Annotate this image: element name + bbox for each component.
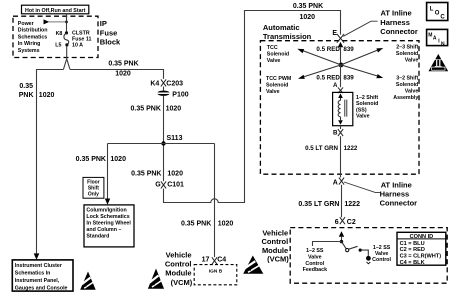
solenoid pin A xyxy=(333,82,343,93)
arrow to 3-2 shift solenoid valve assembly xyxy=(341,65,383,78)
wire label 0.35 PNK 1020 xyxy=(108,60,138,77)
svg-text:Control: Control xyxy=(372,257,391,263)
svg-text:(VCM): (VCM) xyxy=(267,254,289,263)
svg-text:In Wiring: In Wiring xyxy=(18,41,41,47)
svg-text:839: 839 xyxy=(343,46,354,53)
svg-text:Module: Module xyxy=(165,269,191,278)
svg-text:Power: Power xyxy=(18,21,34,27)
floor shift note box xyxy=(83,177,104,198)
grommet P100 xyxy=(157,91,188,99)
svg-text:Solenoid: Solenoid xyxy=(356,101,378,107)
power distribution dashed box xyxy=(13,16,98,57)
svg-text:Solenoid: Solenoid xyxy=(267,51,289,57)
svg-text:839: 839 xyxy=(343,75,354,82)
arrow into instrument cluster box xyxy=(34,253,40,259)
svg-text:1020: 1020 xyxy=(39,92,55,99)
splice S113 xyxy=(161,135,182,146)
switch S1 1-2 SS valve control xyxy=(342,242,371,264)
solenoid U1 1-2 shift solenoid box xyxy=(333,92,353,125)
svg-text:Gauges and Console: Gauges and Console xyxy=(15,285,68,291)
wire label 0.5 RED 839 (lower) xyxy=(316,75,354,82)
svg-text:0.35 PNK: 0.35 PNK xyxy=(108,60,138,67)
ESD triangle near column box xyxy=(148,269,164,289)
automatic transmission dashed box xyxy=(260,41,419,175)
svg-text:S113: S113 xyxy=(167,135,183,142)
svg-text:0.5 RED: 0.5 RED xyxy=(316,46,340,53)
label: TCC PWM Solenoid Valve xyxy=(266,76,292,95)
wire label 0.35 PNK 1020 xyxy=(131,105,182,112)
svg-text:IGN B: IGN B xyxy=(209,268,223,274)
svg-text:1020: 1020 xyxy=(115,70,131,77)
ESD triangle near VCM xyxy=(243,256,263,274)
svg-text:Solenoid: Solenoid xyxy=(266,83,288,89)
fuse value label xyxy=(72,31,91,49)
svg-text:In Steering Wheel: In Steering Wheel xyxy=(86,221,131,227)
svg-text:Schematics In: Schematics In xyxy=(15,270,51,276)
svg-text:Automatic: Automatic xyxy=(263,23,300,32)
wire label 0.35 PNK 1020 (top) xyxy=(293,3,323,21)
svg-text:IP: IP xyxy=(100,19,107,28)
svg-text:CLSTR: CLSTR xyxy=(72,31,90,37)
label: AT Inline Harness Connector (bottom) xyxy=(380,181,418,208)
svg-text:Instrument Panel,: Instrument Panel, xyxy=(15,278,60,284)
arrow to TCC PWM solenoid valve xyxy=(298,65,341,79)
svg-text:A: A xyxy=(333,82,338,89)
junction node in transmission xyxy=(339,63,344,68)
svg-text:0.5 RED: 0.5 RED xyxy=(316,75,340,82)
note: Power Distribution Schematics In Wiring Systems xyxy=(18,21,48,54)
svg-text:Transmission: Transmission xyxy=(263,32,312,41)
svg-text:K4: K4 xyxy=(150,81,159,88)
label: Vehicle Control Module (VCM) right xyxy=(262,229,290,264)
svg-text:C101: C101 xyxy=(167,182,184,189)
svg-text:N: N xyxy=(441,41,445,47)
arrow into transmission at E xyxy=(338,42,343,47)
power feed arrow xyxy=(44,19,68,24)
svg-text:1–2 SS: 1–2 SS xyxy=(373,245,391,251)
label: Vehicle Control Module (VCM) left xyxy=(165,251,193,287)
wire B down to connector A xyxy=(340,136,342,177)
svg-text:Solenoid: Solenoid xyxy=(396,82,418,88)
label: 1-2 SS Valve Control xyxy=(372,245,391,263)
label: 2-3 Shift Solenoid Valve xyxy=(396,44,419,63)
svg-text:L: L xyxy=(430,6,434,12)
svg-text:A: A xyxy=(333,180,338,187)
svg-text:1020: 1020 xyxy=(110,156,126,163)
svg-text:C203: C203 xyxy=(166,81,183,88)
svg-text:1020: 1020 xyxy=(167,170,183,177)
svg-text:0.35 PNK: 0.35 PNK xyxy=(131,170,161,177)
svg-text:Systems: Systems xyxy=(18,48,40,54)
wire to feedback stub xyxy=(313,242,342,247)
svg-text:AT Inline: AT Inline xyxy=(381,181,412,190)
label: Automatic Transmission xyxy=(263,23,312,41)
svg-text:Standard: Standard xyxy=(86,234,109,240)
wire S113 horizontal xyxy=(108,143,215,145)
wire into VCM switch xyxy=(341,237,343,242)
connector C203 pin K4 xyxy=(150,79,183,90)
label: IP Fuse Block xyxy=(100,19,121,46)
svg-text:17: 17 xyxy=(202,257,210,264)
svg-text:Valve: Valve xyxy=(266,89,280,95)
wire right branch along top xyxy=(70,70,164,79)
wire label 0.35 PNK 1020 xyxy=(181,221,233,228)
arrow into column box xyxy=(105,199,110,205)
svg-text:PNK: PNK xyxy=(19,92,34,99)
svg-text:0.35 PNK: 0.35 PNK xyxy=(131,105,161,112)
svg-text:Schematics: Schematics xyxy=(18,34,47,40)
instrument cluster note box xyxy=(12,260,73,292)
label: 1-2 Shift Solenoid (SS) Valve xyxy=(356,95,378,120)
wire label 0.5 RED 839 (upper) xyxy=(316,46,354,53)
svg-text:Harness: Harness xyxy=(380,190,410,199)
svg-text:3–2 Shift: 3–2 Shift xyxy=(396,76,418,82)
wire left branch to instrument cluster xyxy=(37,70,64,254)
svg-text:TCC: TCC xyxy=(267,45,278,51)
LOC logo box xyxy=(427,3,448,21)
connector C4 pin 17 xyxy=(202,257,227,265)
svg-text:Valve: Valve xyxy=(356,114,370,120)
svg-text:G: G xyxy=(155,182,161,189)
connector A (AT inline harness, bottom) xyxy=(333,178,344,187)
svg-text:(SS): (SS) xyxy=(356,107,367,113)
svg-text:(VCM): (VCM) xyxy=(171,278,193,287)
coil of 1-2 shift solenoid xyxy=(338,98,347,120)
svg-text:1–2 SS: 1–2 SS xyxy=(306,248,324,254)
svg-text:P100: P100 xyxy=(172,92,188,99)
svg-text:K8: K8 xyxy=(56,31,63,37)
column/ignition note box xyxy=(84,205,134,247)
arrow up at solenoid top xyxy=(338,93,343,98)
connector C2 pin 6 xyxy=(335,217,356,226)
svg-text:0.35 PNK: 0.35 PNK xyxy=(181,221,211,228)
svg-text:Valve: Valve xyxy=(405,89,419,95)
svg-text:0.5 LT GRN: 0.5 LT GRN xyxy=(305,145,338,152)
solenoid pin B xyxy=(333,126,343,137)
wire from C101 down then right up to transmission xyxy=(164,11,341,203)
svg-text:O: O xyxy=(435,10,440,16)
svg-text:Lock Schematics: Lock Schematics xyxy=(86,214,129,220)
arrow to 2-3 shift solenoid valve xyxy=(341,48,383,65)
callout line to AT inline harness connector (top) xyxy=(343,21,377,36)
svg-text:Solenoid: Solenoid xyxy=(396,51,418,57)
svg-text:A: A xyxy=(433,36,437,42)
svg-text:C4: C4 xyxy=(217,257,226,264)
svg-text:6: 6 xyxy=(335,219,339,226)
svg-text:Only: Only xyxy=(88,191,99,197)
svg-text:Control: Control xyxy=(165,260,192,269)
svg-text:and Column –: and Column – xyxy=(86,227,121,233)
svg-text:0.35 LT GRN: 0.35 LT GRN xyxy=(298,201,339,208)
VCM dashed box xyxy=(290,228,447,284)
svg-text:Connector: Connector xyxy=(380,198,418,207)
VCM IGN B dashed box xyxy=(194,265,237,285)
label: 3-2 Shift Solenoid Valve Assembly xyxy=(393,76,418,102)
MAIN logo box xyxy=(427,29,448,47)
svg-text:B: B xyxy=(333,130,338,137)
svg-text:Distribution: Distribution xyxy=(18,28,48,34)
junction node in VCM xyxy=(340,240,343,243)
wire junction down to pin A xyxy=(340,65,342,87)
DDO II triangle logo xyxy=(429,54,449,71)
svg-text:Connector: Connector xyxy=(380,27,418,36)
CONN ID table xyxy=(397,232,446,266)
fuse CLSTR Fuse 11 10 A xyxy=(64,31,69,46)
svg-text:M: M xyxy=(428,32,432,38)
svg-text:Valve: Valve xyxy=(405,57,419,63)
wire down to S113 xyxy=(163,96,165,181)
wire label 0.5 LT GRN 1222 xyxy=(305,145,358,152)
svg-text:C1 = BLU: C1 = BLU xyxy=(400,241,425,247)
svg-text:1020: 1020 xyxy=(166,105,182,112)
svg-text:AT Inline: AT Inline xyxy=(381,9,412,18)
wire branch to column box xyxy=(107,144,109,199)
svg-text:E: E xyxy=(332,30,337,37)
svg-text:1–2 Shift: 1–2 Shift xyxy=(356,95,378,101)
arrow down at solenoid bottom xyxy=(338,120,343,125)
connector E (AT inline harness) xyxy=(332,30,344,43)
arrow into VCM at pin 6 xyxy=(339,231,344,237)
svg-text:Valve: Valve xyxy=(375,251,389,257)
hot box label: Hot in Off,Run and Start xyxy=(22,5,89,14)
svg-text:L5: L5 xyxy=(55,43,61,49)
label: TCC Solenoid Valve xyxy=(267,45,289,64)
svg-text:2–3 Shift: 2–3 Shift xyxy=(396,44,418,50)
svg-text:Fuse: Fuse xyxy=(100,28,118,37)
svg-text:1020: 1020 xyxy=(218,221,234,228)
svg-text:Valve: Valve xyxy=(267,58,281,64)
svg-text:Control: Control xyxy=(305,261,324,267)
svg-text:Valve: Valve xyxy=(308,255,322,261)
wire label 0.35 PNK 1020 xyxy=(76,156,126,163)
svg-text:0.35: 0.35 xyxy=(19,83,33,90)
svg-text:Column/Ignition: Column/Ignition xyxy=(86,208,126,214)
wire fuse output split xyxy=(63,46,70,70)
wire label 0.35 LT GRN 1222 xyxy=(298,201,360,208)
svg-text:Vehicle: Vehicle xyxy=(166,251,192,260)
wire label 0.35 PNK 1020 (via C101) xyxy=(131,170,183,177)
svg-text:0.35 PNK: 0.35 PNK xyxy=(293,3,323,10)
svg-text:0.35 PNK: 0.35 PNK xyxy=(76,156,106,163)
svg-text:10 A: 10 A xyxy=(72,42,83,48)
svg-text:Block: Block xyxy=(100,38,121,47)
wire label 0.35 PNK 1020 (left) xyxy=(19,83,55,99)
svg-text:Instrument Cluster: Instrument Cluster xyxy=(15,263,62,269)
svg-text:TCC PWM: TCC PWM xyxy=(266,76,292,82)
svg-text:Hot in Off,Run and Start: Hot in Off,Run and Start xyxy=(25,8,86,14)
wire E down to junction xyxy=(340,47,342,62)
svg-text:1222: 1222 xyxy=(344,145,358,152)
svg-text:Assembly: Assembly xyxy=(393,95,418,101)
wire A down to VCM pin 6 xyxy=(341,185,343,217)
wire branch right to VCM IGN B xyxy=(214,144,216,258)
svg-text:DDO II: DDO II xyxy=(434,68,442,71)
svg-text:Feedback: Feedback xyxy=(303,267,327,273)
arrow to TCC solenoid valve xyxy=(297,49,341,65)
svg-text:1020: 1020 xyxy=(300,14,316,21)
svg-text:1222: 1222 xyxy=(344,201,360,208)
svg-text:C3 = CLR(WHT): C3 = CLR(WHT) xyxy=(400,254,442,260)
svg-text:C4 = BLK: C4 = BLK xyxy=(400,260,425,266)
svg-text:C: C xyxy=(440,14,445,20)
label: 1-2 SS Valve Control Feedback xyxy=(303,248,327,273)
connector C101 pin G xyxy=(155,181,184,188)
svg-text:Harness: Harness xyxy=(380,18,410,27)
svg-text:CONN ID: CONN ID xyxy=(410,234,434,240)
wire from hot box to fuse xyxy=(66,14,68,32)
svg-text:C2 = RED: C2 = RED xyxy=(400,247,425,253)
callout line to AT inline harness connector (bottom) xyxy=(344,182,380,193)
svg-text:C2: C2 xyxy=(347,219,356,226)
label: AT Inline Harness Connector (top) xyxy=(380,9,418,36)
ESD triangle near instrument cluster xyxy=(80,272,96,290)
